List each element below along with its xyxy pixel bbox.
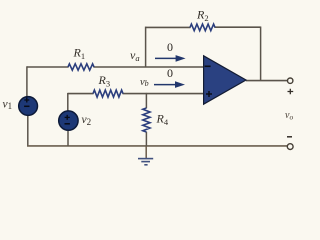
op-amp U1 bbox=[204, 56, 246, 104]
wire: R4 bottom lead bbox=[145, 132, 147, 146]
wire: feedback top right segment bbox=[215, 26, 261, 28]
wire: R4 top lead bbox=[145, 93, 147, 108]
current arrow 0 into inverting input bbox=[155, 57, 178, 59]
wire: op-amp output wire bbox=[246, 80, 288, 82]
output terminal top bbox=[288, 78, 293, 83]
wire: v2 bottom vertical bbox=[67, 131, 69, 146]
resistor R1 bbox=[68, 64, 94, 70]
svg-text:0: 0 bbox=[167, 66, 173, 80]
voltage source v1 bbox=[19, 97, 38, 116]
svg-text:v2: v2 bbox=[82, 114, 92, 127]
op-amp minus input symbol bbox=[205, 65, 211, 67]
wire: v1 top vertical bbox=[26, 66, 28, 97]
wire: non-inverting input wire right of R3 bbox=[123, 93, 204, 95]
wire: feedback left vertical bbox=[145, 27, 147, 68]
wire: inverting input wire right of R1 bbox=[94, 66, 204, 68]
wire: non-inverting input wire left of R3 bbox=[68, 93, 94, 95]
wire: inverting input wire left of R1 bbox=[27, 66, 69, 68]
label + output polarity bbox=[288, 89, 294, 95]
output terminal bottom bbox=[287, 144, 293, 150]
svg-text:vb: vb bbox=[140, 77, 149, 88]
wire: bottom ground bus bbox=[27, 145, 287, 147]
op-amp plus input symbol bbox=[206, 91, 212, 97]
wire: feedback top left segment bbox=[146, 26, 191, 28]
ground bbox=[138, 158, 153, 160]
resistor R3 bbox=[93, 90, 123, 97]
wire: ground stem bbox=[145, 146, 147, 158]
voltage source v2 bbox=[59, 111, 78, 130]
svg-text:v1: v1 bbox=[3, 98, 13, 111]
current arrow 0 into non-inverting input bbox=[154, 84, 177, 86]
svg-text:0: 0 bbox=[167, 40, 173, 54]
wire: feedback right vertical bbox=[260, 27, 262, 81]
wire: v1 bottom vertical bbox=[27, 115, 29, 146]
resistor R2 bbox=[190, 24, 215, 31]
label - output polarity bbox=[287, 136, 292, 138]
wire: v2 top vertical bbox=[67, 93, 69, 111]
resistor R4 bbox=[143, 108, 150, 132]
svg-text:vo: vo bbox=[285, 110, 293, 122]
